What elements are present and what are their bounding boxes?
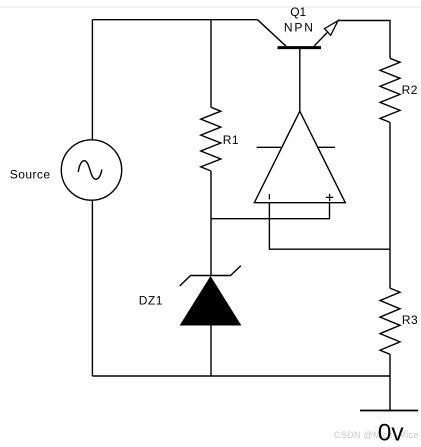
svg-text:Q1: Q1 [290, 5, 306, 19]
svg-text:DZ1: DZ1 [139, 293, 163, 307]
AC source sine wave [78, 161, 102, 180]
svg-text:R2: R2 [402, 83, 418, 97]
transistor Q1 emitter arrow [325, 21, 339, 36]
resistor R3 [380, 288, 400, 354]
wire node A: op-amp + input to R1/DZ1 junction [211, 203, 330, 219]
op-amp U1 left power pin [257, 146, 281, 148]
wire left rail bottom [91, 200, 93, 376]
resistor R1 [201, 107, 221, 171]
wire right rail top (emitter to R2) [338, 21, 390, 59]
wire R1 bottom to DZ1 node [210, 171, 212, 276]
wire Q1 base to op-amp output [299, 48, 301, 112]
page break line [0, 6, 421, 8]
wire node B: op-amp - input to R2/R3 junction [269, 203, 390, 249]
zener diode DZ1 cathode bar with bent ends [180, 266, 241, 286]
svg-text:R3: R3 [402, 313, 418, 327]
zener diode DZ1 anode triangle [181, 277, 241, 325]
transistor Q1 base bar [278, 46, 322, 49]
svg-text:0v: 0v [378, 419, 405, 446]
resistor R2 [380, 58, 400, 122]
wire left rail top [91, 20, 93, 140]
wire DZ1 anode to bottom wire [210, 325, 212, 376]
op-amp U1 triangle [254, 111, 345, 203]
svg-text:Source: Source [10, 168, 51, 182]
wire top horizontal from left rail to Q1 collector [92, 19, 257, 21]
AC source V1 circle [61, 140, 121, 200]
svg-text:R1: R1 [223, 133, 239, 147]
wire R1 column top [210, 20, 212, 108]
0v rail bar [360, 410, 418, 412]
op-amp U1 non-inverting input mark [326, 194, 333, 201]
transistor Q1 emitter lead [314, 32, 328, 46]
transistor Q1 collector lead [258, 20, 287, 47]
wire bottom horizontal [92, 375, 390, 377]
svg-text:CSDN @Mice_Mice: CSDN @Mice_Mice [334, 430, 419, 440]
svg-text:NPN: NPN [284, 20, 315, 34]
wire right rail bottom (R3 to 0v bar) [389, 354, 391, 410]
wire right rail middle (R2 to R3) [389, 122, 391, 288]
op-amp U1 right power pin [318, 146, 335, 148]
op-amp U1 inverting input mark [268, 194, 270, 200]
